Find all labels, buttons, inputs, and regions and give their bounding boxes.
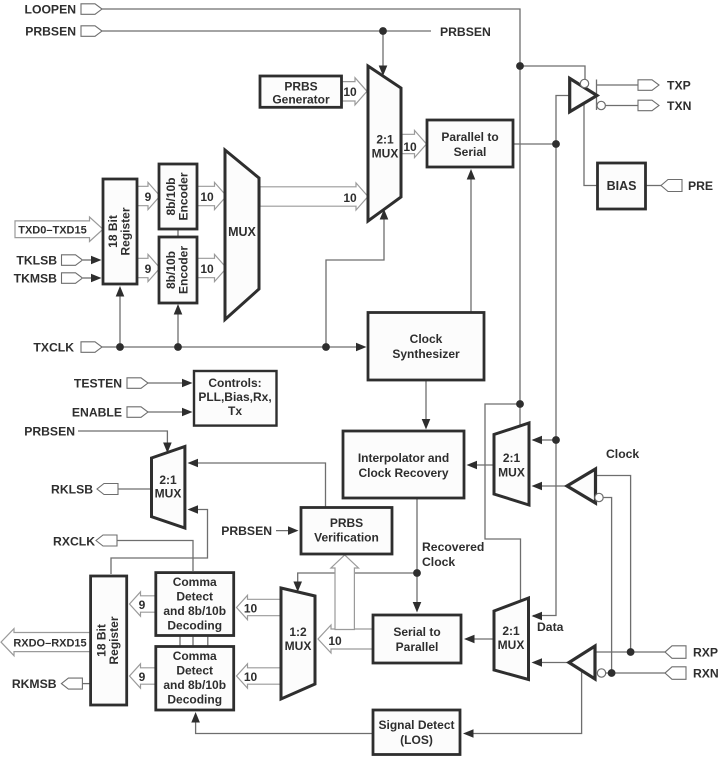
svg-text:TKMSB: TKMSB	[14, 272, 58, 286]
svg-text:Controls:: Controls:	[208, 376, 261, 390]
pin TKMSB	[62, 273, 83, 284]
pin RXP	[665, 646, 686, 659]
wire clock synthesizer to interpolator	[425, 381, 427, 424]
wire TKMSB into TX register	[83, 277, 95, 279]
svg-text:10: 10	[343, 191, 357, 205]
arrowhead serial data into clock 2:1 MUX upper input	[532, 436, 543, 445]
mux 1:2 MUX	[281, 588, 315, 699]
svg-text:10: 10	[200, 190, 214, 204]
svg-text:Decoding: Decoding	[167, 619, 222, 633]
svg-text:Parallel to: Parallel to	[441, 130, 498, 144]
svg-text:RXDO–RXD15: RXDO–RXD15	[13, 638, 86, 650]
arrowhead synthesizer clock into interpolator	[422, 419, 431, 430]
bus 10: 1:2 MUX to lower comma decoder	[237, 664, 283, 688]
bus: recovered data up to PRBS verification	[331, 555, 359, 630]
block Parallel to Serial	[427, 120, 513, 167]
svg-text:Detect: Detect	[176, 664, 213, 678]
svg-text:8b/10bEncoder: 8b/10bEncoder	[164, 246, 191, 294]
pin PRE	[661, 180, 682, 192]
pin RKLSB	[97, 484, 118, 495]
block Signal Detect (LOS)	[373, 710, 460, 755]
junction PRBSEN/top	[379, 27, 387, 35]
svg-text:Verification: Verification	[314, 531, 379, 545]
wire parallel-to-serial output to junction	[514, 143, 556, 145]
svg-text:Clock: Clock	[410, 332, 443, 346]
buffer RX input	[569, 646, 595, 679]
junction LOOPEN to driver enable	[516, 62, 524, 70]
pin RXN	[665, 667, 686, 680]
block 18 Bit Register (RX)	[91, 576, 127, 705]
svg-text:MUX: MUX	[372, 147, 399, 161]
pin TXN	[638, 100, 659, 111]
wire TXCLK to TX register clock	[119, 288, 121, 347]
svg-text:Recovered: Recovered	[422, 540, 484, 554]
wire LOOPEN branch to TX driver enable bubble	[520, 66, 585, 79]
svg-text:Serial to: Serial to	[393, 625, 440, 639]
arrowhead TXCLK into lower encoder	[174, 304, 183, 315]
svg-text:2:1: 2:1	[159, 473, 177, 487]
svg-text:MUX: MUX	[498, 638, 525, 652]
svg-text:10: 10	[244, 670, 258, 684]
wire RKMSB from RX register	[82, 683, 90, 685]
arrowhead byte clock into RKLSB MUX lower input	[188, 505, 199, 514]
arrowhead RX buffer into data 2:1 MUX lower input	[532, 658, 543, 667]
wire TXCLK to TX 2:1 MUX select	[326, 212, 384, 347]
svg-text:9: 9	[139, 670, 146, 684]
svg-text:and 8b/10b: and 8b/10b	[163, 604, 226, 618]
arrowhead data MUX output into serial-to-parallel	[464, 635, 475, 644]
svg-text:2:1: 2:1	[376, 133, 394, 147]
block Comma Detect and 8b/10b Decoding (upper)	[156, 573, 234, 636]
arrowhead RX buffer into signal detect	[463, 729, 474, 738]
buffer TX output driver	[570, 78, 597, 111]
wire RXCLK to upper comma decoder	[117, 541, 193, 572]
wire RKLSB MUX lower input from byte clock	[111, 510, 208, 575]
block BIAS	[598, 163, 646, 209]
pin TKLSB	[62, 255, 83, 265]
svg-text:TKLSB: TKLSB	[16, 254, 57, 268]
svg-text:10: 10	[328, 634, 342, 648]
wire clock buffer inverting input from RXN	[603, 498, 612, 674]
svg-text:Detect: Detect	[176, 590, 213, 604]
svg-text:9: 9	[139, 598, 146, 612]
pin TESTEN	[127, 378, 148, 389]
svg-text:Clock: Clock	[606, 447, 639, 461]
wire TXP output line	[597, 84, 639, 86]
svg-text:9: 9	[145, 262, 152, 276]
svg-text:PRBSEN: PRBSEN	[24, 425, 75, 439]
svg-text:RXP: RXP	[693, 646, 718, 660]
svg-text:Tx: Tx	[228, 404, 242, 418]
svg-text:Comma: Comma	[173, 649, 217, 663]
wire clock buffer noninverting input from RXP	[596, 476, 631, 653]
junction serial data to clock MUX	[552, 436, 560, 444]
wire RXN line	[606, 672, 666, 674]
svg-text:10: 10	[200, 262, 214, 276]
bus TXD0-TXD15 input, 18 wide	[15, 217, 103, 242]
buffer clock input	[567, 469, 596, 503]
arrowhead PRBSEN into PRBS verification	[288, 526, 299, 535]
mux big TX MUX	[225, 150, 259, 320]
mux TX 2:1 MUX	[368, 66, 401, 221]
arrowhead PRBS verification into RKLSB MUX upper input	[188, 459, 199, 468]
block Comma Detect and 8b/10b Decoding (lower)	[156, 647, 234, 711]
wire PRBSEN drop to TX 2:1 MUX select	[382, 31, 384, 68]
bubble TXN inversion	[597, 101, 605, 109]
arrowhead ENABLE into controls	[182, 408, 193, 417]
arrowhead TXCLK into TX 2:1 MUX	[380, 209, 389, 220]
svg-text:2:1: 2:1	[502, 624, 520, 638]
svg-text:TXP: TXP	[667, 79, 691, 93]
bus 10: serial-to-parallel to 1:2 MUX	[318, 625, 373, 653]
junction RXP to clock buffer	[627, 648, 635, 656]
svg-text:(LOS): (LOS)	[400, 733, 433, 747]
svg-text:PLL,Bias,Rx,: PLL,Bias,Rx,	[198, 390, 271, 404]
wire TXCLK net	[102, 346, 358, 348]
bus 9: TX register to upper encoder	[137, 182, 160, 209]
bus 10: 1:2 MUX to upper comma decoder	[237, 595, 282, 619]
wire data 2:1 MUX to serial-to-parallel	[468, 638, 494, 640]
arrowhead TXCLK into clock synthesizer	[356, 343, 367, 352]
pin RXCLK	[96, 535, 117, 546]
wire recovered clock branch to 1:2 MUX select	[298, 573, 417, 586]
block Interpolator and Clock Recovery	[343, 431, 464, 498]
wire BIAS to PRE pin	[646, 185, 661, 187]
wire PRBS verification output to RKLSB MUX	[192, 463, 326, 508]
block 18 Bit Register (TX)	[103, 179, 137, 284]
block 8b/10b Encoder (lower)	[159, 237, 197, 303]
junction RXN to clock buffer	[608, 669, 616, 677]
svg-text:ENABLE: ENABLE	[72, 406, 122, 420]
svg-text:MUX: MUX	[155, 487, 182, 501]
arrowhead TKMSB into TX register	[91, 274, 102, 283]
bus 10: lower encoder to MUX	[197, 254, 227, 281]
wire TESTEN into controls	[148, 382, 186, 384]
svg-text:Clock Recovery: Clock Recovery	[358, 466, 448, 480]
svg-text:RKMSB: RKMSB	[12, 677, 57, 691]
bus 10: PRBS generator to TX 2:1 MUX	[342, 78, 367, 105]
svg-text:PRE: PRE	[688, 179, 713, 193]
svg-text:LOOPEN: LOOPEN	[25, 3, 76, 17]
bubble TX driver enable (LOOPEN)	[580, 79, 588, 87]
bubble RX buffer inverting input	[597, 669, 605, 677]
svg-text:10: 10	[244, 602, 258, 616]
arrowhead PRBSEN into RKLSB MUX select	[163, 443, 172, 454]
wire ENABLE into controls	[148, 411, 186, 413]
svg-text:Interpolator and: Interpolator and	[358, 451, 449, 465]
arrowhead clock MUX output into interpolator	[467, 461, 478, 470]
svg-text:8b/10bEncoder: 8b/10bEncoder	[164, 172, 191, 220]
bus 10: upper encoder to MUX	[197, 182, 227, 209]
block Serial to Parallel	[373, 615, 461, 663]
bus 9: TX register to lower encoder	[137, 254, 160, 281]
svg-text:TESTEN: TESTEN	[74, 377, 122, 391]
block 8b/10b Encoder (upper)	[159, 164, 197, 229]
wire RXP line	[595, 651, 665, 653]
junction TXCLK encoder tap	[174, 343, 182, 351]
wire RX buffer to signal detect	[467, 670, 582, 734]
junction TXCLK register tap	[116, 343, 124, 351]
svg-text:PRBSEN: PRBSEN	[221, 524, 272, 538]
wire clock buffer output to clock 2:1 MUX	[536, 485, 567, 487]
junction TXCLK mux select tap	[322, 343, 330, 351]
svg-text:TXN: TXN	[667, 99, 691, 113]
svg-text:RXN: RXN	[693, 667, 718, 681]
wire RX buffer output to data 2:1 MUX	[536, 662, 569, 664]
svg-text:1:2: 1:2	[289, 625, 307, 639]
arrowhead LOS into lower comma decoder	[191, 712, 200, 723]
svg-text:TXCLK: TXCLK	[33, 341, 74, 355]
wire TX driver output bar	[596, 80, 598, 111]
block Controls: PLL,Bias,Rx,Tx	[194, 371, 277, 426]
wire comma decoder interconnect 2	[192, 634, 194, 648]
arrowhead TXCLK into TX register	[116, 286, 125, 297]
wire comma decoder interconnect 3	[207, 634, 209, 648]
svg-text:9: 9	[145, 190, 152, 204]
wire TKLSB into TX register	[83, 259, 95, 261]
svg-text:Signal Detect: Signal Detect	[378, 718, 454, 732]
svg-text:RXCLK: RXCLK	[53, 535, 95, 549]
mux RKLSB 2:1 MUX	[152, 447, 185, 529]
pin RKMSB	[61, 678, 82, 689]
svg-text:PRBS: PRBS	[330, 516, 363, 530]
svg-text:Generator: Generator	[272, 93, 330, 107]
svg-text:MUX: MUX	[228, 225, 256, 239]
pin LOOPEN	[81, 4, 102, 15]
arrowhead TESTEN into controls	[182, 379, 193, 388]
svg-text:Data: Data	[537, 620, 564, 634]
junction recovered clock split	[413, 569, 421, 577]
wire TXN output line from bubble	[606, 105, 639, 107]
arrowhead recovered clock into 1:2 MUX select	[293, 582, 302, 593]
svg-text:Parallel: Parallel	[396, 640, 439, 654]
block PRBS Verification	[301, 508, 392, 555]
pin TXP	[638, 80, 659, 91]
svg-text:2:1: 2:1	[503, 451, 521, 465]
wire RKLSB MUX output to RKLSB pin	[117, 488, 152, 490]
wire recovered clock from interpolator	[416, 498, 418, 608]
wire TX driver to BIAS	[584, 103, 597, 186]
wire clock 2:1 MUX to interpolator	[471, 464, 494, 466]
wire LOOPEN net: horizontal run and vertical drop at x=520	[102, 9, 520, 425]
pin ENABLE	[127, 407, 148, 418]
wire comma decoder interconnect 1	[179, 634, 181, 648]
bus RXDO-RXD15 output, 18 wide	[1, 629, 91, 656]
bus 10: TX 2:1 MUX to parallel-to-serial	[402, 130, 427, 157]
bus 10: big MUX to TX 2:1 MUX	[260, 183, 368, 210]
junction LOOPEN select split	[516, 400, 524, 408]
mux data 2:1 MUX	[494, 598, 529, 680]
junction serial data at P2S output	[552, 140, 560, 148]
svg-text:BIAS: BIAS	[607, 179, 637, 193]
wire TXCLK to lower encoder clock	[177, 306, 179, 347]
bus 9: lower comma decoder to RX register	[130, 664, 156, 688]
svg-text:10: 10	[343, 85, 357, 99]
svg-text:and 8b/10b: and 8b/10b	[163, 678, 226, 692]
wire PRBSEN mid input to PRBS verification	[276, 530, 296, 532]
mux clock 2:1 MUX	[494, 423, 529, 505]
wire PRBSEN mid to RKLSB MUX select	[78, 431, 167, 446]
svg-text:MUX: MUX	[285, 639, 312, 653]
svg-text:PRBS: PRBS	[284, 80, 317, 94]
wire PRBSEN top net	[102, 30, 431, 32]
wire branch to clock 2:1 MUX upper input	[533, 439, 556, 441]
wire LOOPEN detour around clock MUX to data MUX select	[485, 404, 521, 600]
arrowhead clock buffer into clock 2:1 MUX lower input	[532, 482, 543, 491]
wire serial data up into TX driver	[556, 96, 569, 145]
arrowhead RX data into data 2:1 MUX upper input	[532, 612, 543, 621]
svg-text:MUX: MUX	[498, 466, 525, 480]
arrowhead synthesizer clock into parallel-to-serial	[467, 169, 476, 180]
pin PRBSEN (top)	[81, 26, 102, 37]
block PRBS Generator	[260, 76, 342, 107]
svg-text:Clock: Clock	[422, 555, 455, 569]
bubble clock buffer inverting input	[595, 493, 603, 501]
wire clock synthesizer to parallel-to-serial	[470, 172, 472, 312]
svg-text:Comma: Comma	[173, 575, 217, 589]
arrowhead TKLSB into TX register	[91, 256, 102, 265]
svg-text:TXD0–TXD15: TXD0–TXD15	[18, 225, 86, 237]
wire encoder interconnect	[177, 228, 179, 238]
svg-text:PRBSEN: PRBSEN	[440, 25, 491, 39]
svg-text:Synthesizer: Synthesizer	[392, 347, 460, 361]
wire serial loopback down to data/clock MUXes	[533, 144, 556, 616]
svg-text:RKLSB: RKLSB	[51, 483, 93, 497]
arrowhead PRBSEN into TX 2:1 MUX select	[379, 66, 388, 77]
bus 9: upper comma decoder to RX register	[130, 592, 156, 616]
svg-text:10: 10	[403, 140, 417, 154]
pin TXCLK	[81, 342, 102, 353]
svg-text:PRBSEN: PRBSEN	[25, 25, 76, 39]
svg-text:Decoding: Decoding	[167, 693, 222, 707]
block Clock Synthesizer	[368, 313, 484, 381]
arrowhead recovered clock into serial-to-parallel	[413, 602, 422, 613]
wire LOS to lower comma decoder	[196, 716, 372, 734]
svg-text:Serial: Serial	[454, 145, 487, 159]
